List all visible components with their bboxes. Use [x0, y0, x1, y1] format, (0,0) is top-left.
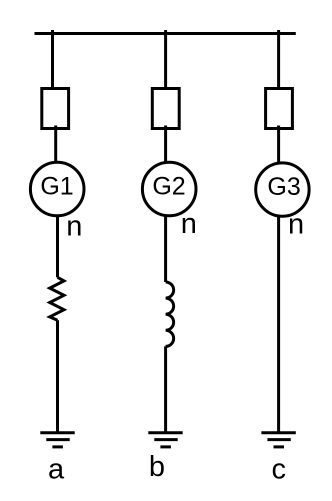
wire: inductor to ground b	[164, 346, 167, 432]
svg-text:n: n	[181, 208, 197, 240]
svg-text:a: a	[48, 454, 65, 486]
ground c	[261, 433, 295, 447]
wire: G2 to inductor	[164, 216, 167, 283]
wire: breaker box 1 to G1	[54, 126, 57, 163]
ground a	[40, 433, 74, 447]
wire: bus to breaker box 1	[51, 30, 54, 88]
breaker box 3	[266, 89, 293, 129]
svg-text:n: n	[66, 210, 82, 242]
wire: resistor to ground a	[56, 320, 59, 433]
svg-text:G2: G2	[152, 173, 185, 201]
breaker box 1	[42, 89, 69, 129]
generator G2	[142, 162, 196, 216]
generator G3	[256, 163, 309, 216]
svg-text:n: n	[288, 208, 304, 240]
wire: bus to breaker box 2	[164, 30, 167, 88]
wire: bus to breaker box 3	[277, 30, 280, 88]
svg-text:G1: G1	[40, 172, 73, 200]
svg-text:c: c	[272, 454, 287, 486]
wire: G3 to ground c (solidly earthed)	[277, 216, 280, 433]
breaker box 2	[152, 89, 179, 129]
inductor (G2 neutral earthing reactor)	[166, 282, 174, 346]
svg-text:b: b	[149, 451, 165, 483]
wire: breaker box 3 to G3	[277, 126, 280, 163]
ground b	[148, 433, 182, 447]
wire: breaker box 2 to G2	[164, 126, 167, 163]
wire: G1 to resistor	[56, 216, 59, 278]
generator G1	[30, 162, 84, 216]
busbar	[35, 32, 296, 35]
resistor (G1 neutral earthing resistor)	[50, 277, 64, 320]
svg-text:G3: G3	[267, 173, 300, 201]
